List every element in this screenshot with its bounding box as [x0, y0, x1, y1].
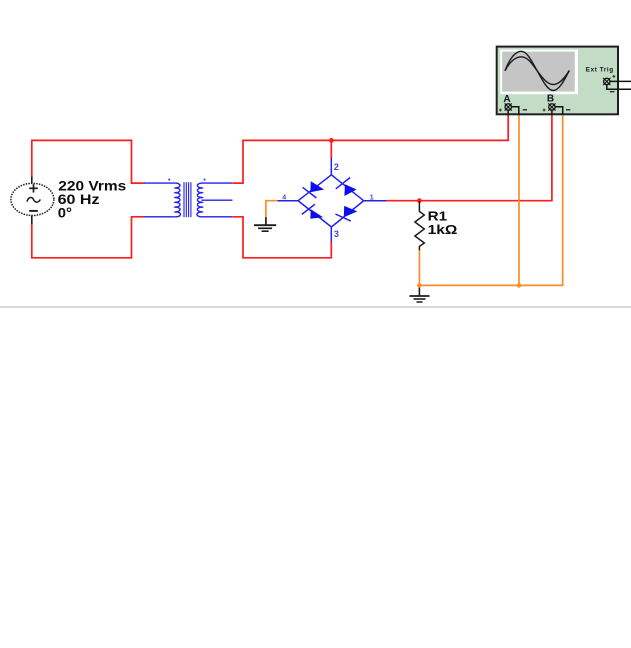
svg-text:0°: 0° — [58, 206, 72, 221]
svg-text:1kΩ: 1kΩ — [428, 222, 458, 237]
svg-text:B: B — [547, 94, 554, 105]
svg-text:1: 1 — [370, 195, 374, 202]
svg-text:3: 3 — [334, 229, 339, 239]
svg-text:2: 2 — [334, 162, 339, 172]
svg-text:4: 4 — [282, 195, 286, 202]
svg-text:Ext Trig: Ext Trig — [586, 66, 614, 73]
svg-text:A: A — [503, 94, 510, 105]
